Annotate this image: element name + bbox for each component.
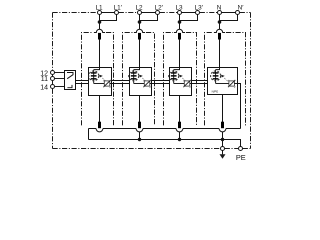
plug-in socket arc top of module 2 — [134, 29, 145, 32]
wire from L2′ down-left to junction — [140, 15, 158, 21]
node junction PE bus below module 4 — [221, 138, 224, 141]
wire socket 2 to PE bus — [139, 132, 141, 140]
spark gap axis wire F3 — [173, 70, 175, 84]
spark gap electrodes F1 — [91, 72, 97, 73]
enclosure border top edge (dash-dot) — [53, 12, 98, 14]
earth terminal on enclosure — [221, 147, 225, 151]
wire pin to protection element module 1 — [99, 40, 101, 68]
wire disconnector to module edge module 1 — [110, 83, 112, 85]
wire module 4 output wrap to PE line — [238, 84, 241, 129]
spark gap enclosure dashed circle F1 — [89, 71, 99, 81]
wire pin to protection element module 4 — [219, 40, 221, 68]
wire entry jog module 2 — [134, 68, 140, 70]
wire L1 down to module 1 — [99, 15, 101, 30]
plug-in pin bottom of module 2 — [138, 122, 141, 129]
plug-in pin bottom of module 3 — [178, 122, 181, 129]
wire pin to protection element module 2 — [139, 40, 141, 68]
disconnector actuating arrow module 2 — [139, 75, 143, 78]
linkage module 1 to module 2 (double line) — [110, 81, 130, 84]
wire disconnector to module edge module 3 — [190, 83, 192, 85]
terminal 12 — [51, 71, 55, 75]
plug-in socket arc top of module 4 — [214, 29, 225, 32]
wire L2 down to module 2 — [139, 15, 141, 30]
plug-in socket arc top of module 3 — [174, 29, 185, 32]
linkage module 2 to module 3 (double line) — [150, 81, 170, 84]
thermal disconnector square module 4 — [229, 81, 235, 86]
wire entry jog module 1 — [94, 68, 100, 70]
wire L2-L2′ link on top edge — [142, 12, 156, 14]
wire disconnector to module edge module 4 — [234, 83, 237, 85]
PE collecting line between sockets — [89, 128, 241, 130]
spark gap axis wire F2 — [133, 70, 135, 84]
node junction L1 — [98, 20, 102, 24]
wire module 2 down to bottom pin — [139, 96, 141, 123]
wire L3 down to module 3 — [179, 15, 181, 30]
module 2 plug-in unit boundary (dash-dot) — [123, 33, 155, 126]
disconnector actuating arrow module 1 — [99, 75, 103, 78]
wire pin to protection element module 3 — [179, 40, 181, 68]
wire from L3′ down-left to junction — [180, 15, 198, 21]
disconnector actuating arrow module 3 — [179, 75, 183, 78]
spark gap enclosure dashed circle F2 — [129, 71, 139, 81]
spark gap axis wire F1 — [93, 70, 95, 84]
wire gap to disconnector module 4 — [216, 83, 229, 85]
plug-in socket cup bottom of module 3 — [176, 129, 183, 132]
changeover contact box K1 — [65, 71, 76, 90]
svg-text:L2′: L2′ — [155, 4, 164, 11]
PE bus — [89, 140, 241, 147]
wire N-N′ link on top edge — [222, 12, 236, 14]
spark gap electrodes F3 — [171, 72, 177, 73]
terminal 14 — [51, 85, 55, 89]
linkage module 3 to module 4 (double line) — [190, 81, 208, 84]
terminal L1 — [98, 11, 102, 15]
terminal L1′ — [115, 11, 119, 15]
spark gap electrodes F4 — [213, 72, 219, 73]
node junction PE bus below module 3 — [178, 138, 181, 141]
wire terminal 12 to contact K1 — [55, 72, 68, 74]
node junction L2 — [138, 20, 142, 24]
plug-in pin top of module 2 — [138, 33, 141, 40]
wire disconnector to module edge module 2 — [150, 83, 152, 85]
enclosure border left edge (dash-dot) — [52, 13, 54, 149]
linkage FM contact to module 1 (double line) — [76, 81, 89, 84]
disconnector actuating arrow module 4 — [221, 75, 225, 78]
protection element box F4 (module 4) — [208, 68, 238, 95]
terminal PE — [239, 147, 243, 151]
terminal N′ — [236, 11, 240, 15]
terminal L3′ — [196, 11, 200, 15]
svg-text:L1′: L1′ — [114, 4, 123, 11]
spark gap enclosure dashed circle F4 — [211, 71, 221, 81]
wire socket line down to PE bus (left corner) — [88, 129, 90, 140]
wire socket 4 down to earth terminal — [222, 132, 224, 147]
terminal L2′ — [156, 11, 160, 15]
earth arrow — [220, 154, 226, 159]
plug-in socket cup bottom of module 1 — [96, 129, 103, 132]
svg-text:L3′: L3′ — [195, 4, 204, 11]
enclosure border bottom edge (dash-dot) — [53, 148, 251, 150]
terminal 11 — [51, 77, 55, 81]
module 1 plug-in unit boundary (dash-dot) — [82, 33, 114, 126]
node junction N — [218, 20, 222, 24]
module 4 plug-in unit boundary (dash-dot) — [205, 33, 246, 126]
wire from L1′ down-left to junction — [100, 15, 117, 21]
wire L1-L1′ link on top edge — [102, 12, 115, 14]
plug-in pin top of module 3 — [178, 33, 181, 40]
wire terminal 11 to contact K1 — [55, 78, 68, 80]
svg-text:14: 14 — [40, 84, 48, 91]
contact seat 14 — [67, 85, 72, 88]
wire module 1 down to bottom pin — [99, 96, 101, 123]
thermal disconnector square module 3 — [184, 81, 190, 86]
terminal L2 — [138, 11, 142, 15]
spark gap enclosure dashed circle F3 — [169, 71, 179, 81]
changeover contact blade K1 — [67, 73, 73, 79]
protection element box F3 (module 3) — [170, 68, 192, 96]
terminal N — [218, 11, 222, 15]
plug-in pin bottom of module 1 — [98, 122, 101, 129]
wire module 4 down to bottom pin — [222, 95, 224, 123]
svg-text:N/PE: N/PE — [212, 89, 219, 93]
node junction PE bus below module 2 — [138, 138, 141, 141]
terminal L3 — [178, 11, 182, 15]
wire from N′ down-left to junction — [220, 15, 238, 21]
wire module 3 down to bottom pin — [179, 96, 181, 123]
plug-in pin top of module 1 — [98, 33, 101, 40]
protection element box F2 (module 2) — [130, 68, 152, 96]
earth conductor stub — [222, 151, 224, 155]
wire entry jog module 4 — [216, 68, 220, 70]
thermal disconnector square module 2 — [144, 81, 150, 86]
plug-in socket cup bottom of module 2 — [136, 129, 143, 132]
wire L3-L3′ link on top edge — [182, 12, 196, 14]
wire gap to disconnector module 2 — [134, 83, 145, 85]
svg-text:11: 11 — [41, 76, 48, 83]
wire socket 3 to PE bus — [179, 132, 181, 140]
wire terminal 14 to contact K1 — [55, 86, 68, 88]
svg-text:PE: PE — [236, 153, 246, 162]
protection element box F1 (module 1) — [89, 68, 112, 96]
thermal disconnector square module 1 — [104, 81, 110, 86]
wire entry jog module 3 — [174, 68, 180, 70]
module 3 plug-in unit boundary (dash-dot) — [164, 33, 197, 126]
plug-in socket cup bottom of module 4 — [219, 129, 226, 132]
wire N down to module 4 — [219, 15, 221, 30]
spark gap axis wire F4 — [215, 70, 217, 84]
wire gap to disconnector module 3 — [174, 83, 185, 85]
plug-in socket arc top of module 1 — [94, 29, 105, 32]
plug-in pin top of module 4 — [218, 33, 221, 40]
enclosure border right edge (dash-dot) — [250, 13, 252, 149]
spark gap electrodes F2 — [131, 72, 137, 73]
wire gap to disconnector module 1 — [94, 83, 105, 85]
plug-in pin bottom of module 4 — [221, 122, 224, 129]
node junction L3 — [178, 20, 182, 24]
